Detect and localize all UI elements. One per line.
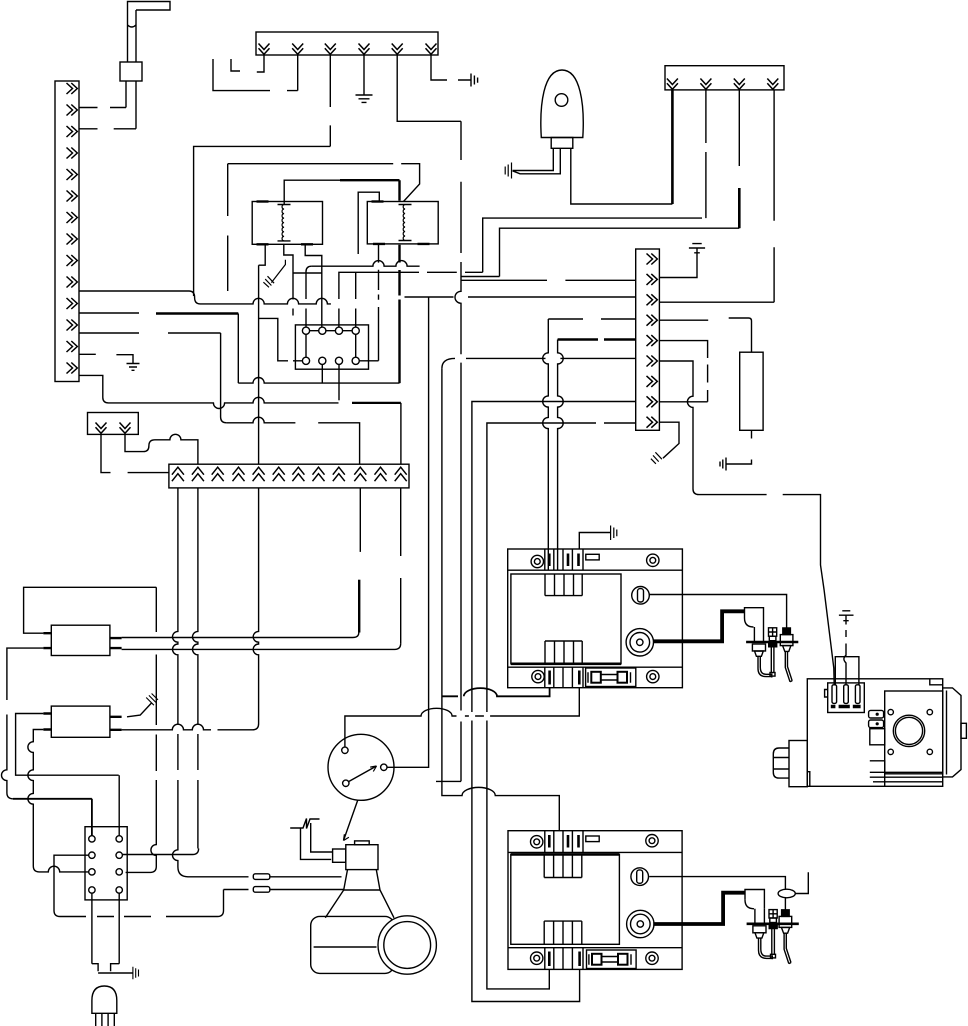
wire vertical TB6 chevron1 x177 down with jumps and hook [173,488,342,877]
wire TB1 row y291 with jog to y304 [79,291,331,304]
wire H2 thick segment to TB6 chevron12 [352,402,401,404]
wire TB4 row6-right via x693 down to gas valve [659,361,834,685]
wire B1 left stub1 loop over top to x156 [24,587,157,633]
wire K2 top-left terminal feed [358,192,379,254]
transformer box B1 [43,625,121,655]
gas valve bottom lines [870,761,943,787]
wire vertical v4 x486 from TB4 row9 to IM2 bottom1 [487,423,636,989]
wire vertical v7 x557 down to IM1 with jump arcs [558,340,564,571]
relay K1 [252,202,322,245]
wire TB4 row4-right to resistor R1 [659,318,751,352]
wire B2 left stub2 down x33 with jump arcs [28,730,44,867]
relay K2 [367,202,438,244]
wire horizontal y146 to vertical x193.6 [194,146,331,296]
chassis ground G2 [458,74,478,87]
sensing loop oval on E2 [778,889,795,898]
wire K1 coil bottom pin jog down [284,244,322,316]
wire TB4 row5-right down [659,341,707,402]
wire IM1 bottom terminal1 left (W1) [442,688,550,697]
earth ground G11 [116,355,139,371]
thick vertical x399 through K2 down to H1 [398,180,400,383]
wire sensor S1 right lead to TB3 terminal 1 [571,148,673,204]
wire J1 pin c1 bottom loop left [259,318,303,360]
wire TB2 terminal 3 down [329,55,331,146]
igniter electrode assembly E2 [649,872,808,963]
gas valve left connector [773,741,807,787]
wire TB2 terminal 6 to chassis ground G2 [431,55,447,80]
wire B1 right stub1 y637 to thick link [122,633,359,638]
switch SW1 (by box B2) [127,694,158,717]
terminal strip TB1 (left vertical) [55,81,79,382]
splice SP1 [253,874,269,880]
wire TB4 row2 to earth ground G4 [659,248,697,278]
wire TB6 chevron12 down to y649 [400,488,402,644]
terminal strip TB3 (top right horizontal) [665,66,784,90]
solenoid valve V1 [325,841,394,918]
terminal strip TB5 (small, two chevrons) [88,413,139,435]
wire TB4 row8-right [659,401,707,403]
wire timer top to IM1 bottom terminal2 (W2) [345,688,579,748]
ground at IM1 top [579,526,617,550]
wire y163 relay feed with diagonal into K2 [228,164,420,202]
wire B1 left stub2 down x6.9 to y798 [2,648,44,799]
wire B1 right stub2 y649 to TB6 chevron12 [122,643,401,649]
wire TB1 row y313 (thick right part) [79,312,139,314]
wire TB4 row3-right from TB3 terminal 4 [659,90,774,302]
fuse of IM1 [586,668,636,687]
chassis ground G9 [651,452,662,464]
wire J2 row2-left loop down and to solenoid feed [54,855,224,916]
ignition module IM2 [508,831,682,970]
wire J1 pin c3 bottom stub down [338,364,340,400]
wire y798 to J2 row1-left [13,799,92,836]
wire vertical x461 (v5) from ch5 elbow down long [436,121,461,781]
wire B2 right stub2 y729 with jump arcs [122,724,211,730]
wire x499 and y228 across to TB3 terminal 3 [461,228,739,276]
gas valve terminal block [825,683,865,713]
wire TB5 chevron1 down to TB6 [101,434,169,472]
fuse of IM2 [587,950,637,969]
wire J1 pin c4 bottom up to K2 pin1 [359,244,378,361]
gas valve right cap [943,688,967,777]
wire TB2 terminal 4 to earth ground G1 [363,55,365,95]
gas valve TP terminals [869,710,885,744]
connector block J2 (2x4 circles) [85,827,127,900]
wire open stub near TB2 [231,59,240,71]
wire vertical v6 x548 down to IM1 with jump arcs [543,319,549,570]
splice SP2 [253,887,269,893]
wire TB4 row6-left across with hook into v2 [442,358,636,368]
wire vertical v3 x471 from TB4 row8 to IM2 bottom2 [472,402,636,1002]
wire y280 from v5 junction to TB4 row2 [461,279,636,281]
connector block J1 (2x4 circles) [295,325,368,369]
wire vertical v2 x441 down to IM2 slot [442,368,559,830]
wire K1 bottom pin3 to J1 pin c2 [305,244,322,327]
wire vertical TB6 chevron5 x258 down to y775 [218,488,259,730]
wire TB5 chevron2 jog to TB6 [125,434,198,464]
pump motor M1 [311,916,437,974]
wire TB2 terminal 1 stub [257,55,264,72]
wire y266 with jump arcs [312,261,420,267]
plug P1 (top-left antenna/plug) [120,2,170,82]
wire plug P1 right lead to TB1 [79,81,136,129]
wire J1 pin c2 bottom stub down [321,364,323,383]
wire vertical x238 from thick row down to H1 [237,314,239,384]
wire plug P1 left lead to TB1 [79,81,126,108]
terminal strip TB6 (middle horizontal) [169,464,409,488]
wire TB2 terminal 2 down to open end [213,55,298,91]
wire TB4 row4-left across [548,318,635,320]
wire TB1 row y354 and earth ground [79,353,96,355]
wire J2 row4 circles down to plug P2 [92,893,119,964]
wire x482 up and y218 across to TB3 terminal 2 [483,90,706,272]
transformer box B2 [43,706,121,737]
sensor S1 (oval probe) [541,70,583,148]
wire TB3 terminal 3 vertical (partly thick) [738,90,740,166]
wire J1 pin c3 top corner to y272 wire [339,272,483,327]
wire TB6 chevron10 stub and thick link down [359,488,361,552]
wire B2 left stub1 to J2 row1-right [16,714,120,836]
ignition module IM1 [508,549,683,688]
wire TB4 row9-right to chassis ground G9 [659,422,679,458]
wire vertical x220 down to H3 [221,333,227,423]
earth ground G1 [356,95,373,102]
gas valve flange with opening [885,691,943,774]
terminal strip TB2 (top horizontal) [256,32,438,55]
timer T1 (rotary switch) [328,734,394,840]
wire K1 bottom pin1 jog into x258 vertical [259,244,266,265]
chassis ground G3 [505,163,511,179]
spark gap symbol SG1 [263,260,285,288]
wire TB2 terminal 5 down and right to x461 [397,55,461,121]
wire J1 pin c1 top elbow to y266 [306,266,312,327]
wire H3 from x220 elbow to TB6 chevron10 [227,417,360,464]
wire J2 row3-left with jump arc [33,866,88,872]
terminal strip TB4 (right vertical) [636,249,660,430]
wire TB1 bottom row y375 down and right to TB6 chevron12 (H2) [79,375,339,408]
wire J2 row2-right [122,849,198,855]
wire vertical TB6 chevron2 x197 down with jumps and hook [193,488,198,849]
wire to solenoid funnel neck [224,889,344,891]
wire sensor S1 left leads (pair) to chassis ground G3 [513,148,561,174]
wire resistor R1 to chassis ground G5 [720,458,752,471]
wire jumper on valve terminals [835,630,859,686]
wire vertical x228 [227,164,229,291]
wire K1 coil top to thick vertical x399 [284,180,340,204]
earth ground G7 above gas valve [839,611,854,625]
wire vertical v1 x428 down to timer [387,297,429,767]
wire TB4 row5-left thick [558,338,636,340]
wire vertical x258 above TB6 [258,265,260,464]
gas valve body [807,679,942,787]
igniter electrode assembly E1 [649,595,798,682]
wire vertical x156 down to J2 row2 [126,587,157,872]
wire J1 pin c4 top [355,272,357,327]
wire y297 to TB4 row3 [405,296,636,298]
power plug P2 (bottom) [92,964,139,1026]
wire TB1 row y333 [79,332,221,334]
earth ground G4 [689,244,705,253]
wire H1 to thick vertical x399 [238,378,399,384]
resistor R1 [740,352,763,438]
break symbol N (near solenoid) [290,819,332,860]
